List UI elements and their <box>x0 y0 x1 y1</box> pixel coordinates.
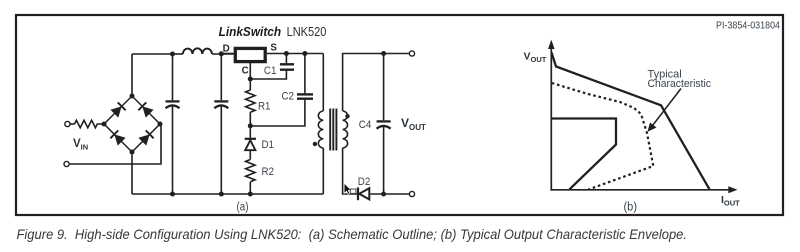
capacitor CIN2 leads <box>220 54 222 194</box>
bridge diode bottom-left <box>110 130 125 145</box>
capacitor C2 plates <box>297 94 313 98</box>
svg-text:C: C <box>242 66 249 77</box>
svg-text:LinkSwitch: LinkSwitch <box>219 24 282 39</box>
wire C1 junction to R1 <box>249 79 251 90</box>
wire rail up to primary bottom <box>322 148 324 194</box>
svg-text:VIN: VIN <box>73 138 88 152</box>
LinkSwitch U1 block <box>235 48 265 61</box>
bridge diode top-right <box>138 102 153 117</box>
wire bridge bottom to rail <box>131 152 133 194</box>
wire D1 to R2 <box>249 151 251 160</box>
output terminal top <box>409 51 414 56</box>
capacitor CIN1 plates <box>166 101 180 108</box>
input terminal top <box>65 121 70 126</box>
inductor L1 <box>183 48 212 54</box>
solid envelope lower boundary <box>552 119 616 190</box>
diode D2 <box>358 187 369 200</box>
wire D pin <box>221 53 233 55</box>
capacitor CIN1 leads <box>172 54 174 194</box>
svg-text:LNK520: LNK520 <box>287 24 327 39</box>
wire secondary top to output <box>343 54 409 112</box>
y-axis <box>550 47 552 191</box>
capacitor C4 plates <box>377 121 391 128</box>
svg-text:Characteristic: Characteristic <box>648 78 712 90</box>
transformer T1 secondary winding <box>343 111 348 148</box>
mouse cursor artifact <box>344 183 356 194</box>
svg-text:R2: R2 <box>262 166 275 178</box>
wire inductor to D node <box>212 53 234 55</box>
svg-text:IOUT: IOUT <box>721 194 740 208</box>
wire secondary bottom to D2 <box>343 148 357 194</box>
resistor R2 zigzag <box>246 160 255 182</box>
capacitor C4 leads <box>383 54 385 195</box>
bridge rectifier diamond wires <box>104 96 160 152</box>
diode D1 <box>245 139 256 150</box>
wire R1 to node <box>249 112 251 126</box>
svg-text:(a): (a) <box>237 202 249 214</box>
capacitor C1 plates <box>280 64 294 69</box>
svg-text:VOUT: VOUT <box>401 116 426 132</box>
wire input top terminal to resistor <box>70 123 74 125</box>
svg-text:C1: C1 <box>264 65 277 77</box>
wire top rail left <box>132 53 173 55</box>
transformer phase dot secondary <box>345 114 349 118</box>
solid envelope upper curve <box>552 53 710 190</box>
transformer core lines <box>330 109 336 151</box>
wire bottom rail <box>132 193 323 195</box>
frame border <box>16 15 783 215</box>
capacitor C2 leads <box>250 54 305 127</box>
wire left drop to bridge top <box>131 54 133 96</box>
svg-text:C2: C2 <box>282 91 295 103</box>
wire D2 to output bottom <box>370 193 409 195</box>
wire R2 to rail <box>249 182 251 194</box>
svg-text:PI-3854-031804: PI-3854-031804 <box>716 21 780 32</box>
svg-text:C4: C4 <box>359 119 372 131</box>
wire top rail between cap and inductor <box>173 53 183 55</box>
transformer phase dot primary <box>313 142 317 146</box>
junction dots <box>102 51 387 197</box>
svg-text:D1: D1 <box>262 139 275 151</box>
svg-text:D2: D2 <box>358 176 371 188</box>
svg-text:(b): (b) <box>624 202 638 214</box>
input terminal bottom <box>64 161 69 166</box>
wire input bottom terminal <box>70 124 161 164</box>
wire corner to primary top <box>322 54 324 112</box>
resistor R1 zigzag <box>246 90 255 112</box>
wire S pin <box>267 53 324 55</box>
bridge diode top-left <box>110 102 125 117</box>
capacitor C1 leads <box>250 54 286 80</box>
bridge diode bottom-right <box>138 130 153 145</box>
svg-text:Figure 9. High-side Configura: Figure 9. High-side Configuration Using … <box>17 227 688 242</box>
transformer T1 primary winding <box>318 111 323 148</box>
resistor RF1 zigzag <box>75 120 105 127</box>
svg-text:R1: R1 <box>258 101 271 113</box>
annotation arrow <box>651 89 681 128</box>
x-axis <box>551 189 730 191</box>
wire node to D1 <box>249 126 251 138</box>
output terminal bottom <box>409 191 414 196</box>
capacitor CIN2 plates <box>214 101 228 108</box>
dotted typical characteristic curve <box>552 83 654 190</box>
svg-text:D: D <box>223 44 230 55</box>
svg-text:S: S <box>270 43 277 54</box>
wire C pin down <box>249 63 251 79</box>
svg-text:VOUT: VOUT <box>524 50 547 64</box>
